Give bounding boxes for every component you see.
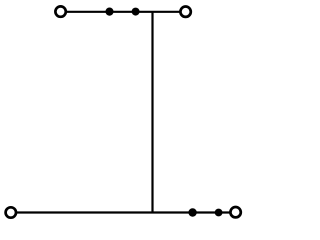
wire: vertical jumper between upper and lower rail bbox=[151, 12, 153, 213]
junction dot: upper rail, right tap bbox=[132, 8, 140, 16]
junction dot: upper rail, left tap bbox=[105, 8, 113, 16]
terminal: upper-right clamping point (open circle) bbox=[180, 7, 190, 17]
junction dot: lower rail, right tap bbox=[215, 209, 223, 217]
junction dot: lower rail, left tap bbox=[188, 208, 196, 216]
wire: upper rail (level 1 conductor bar) bbox=[61, 11, 186, 13]
terminal: upper-left clamping point (open circle) bbox=[55, 6, 65, 16]
wire: lower rail (level 2 conductor bar) bbox=[11, 211, 236, 213]
terminal: lower-right clamping point (open circle) bbox=[230, 207, 240, 217]
terminal: lower-left clamping point (open circle) bbox=[6, 207, 16, 217]
